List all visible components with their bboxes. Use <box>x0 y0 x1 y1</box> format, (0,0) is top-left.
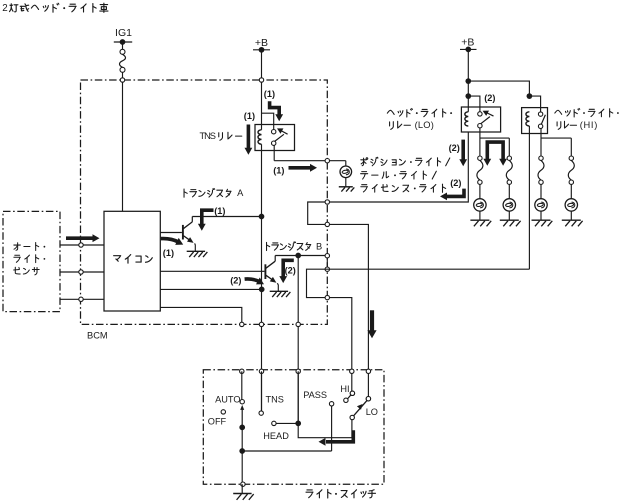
svg-text:PASS: PASS <box>303 390 327 400</box>
svg-text:(2): (2) <box>449 143 460 153</box>
svg-text:(2): (2) <box>450 178 461 188</box>
svg-text:+B: +B <box>461 37 474 49</box>
svg-text:(2): (2) <box>285 265 296 275</box>
svg-text:(2): (2) <box>484 93 495 103</box>
svg-text:(1): (1) <box>163 248 174 258</box>
svg-text:IG1: IG1 <box>115 27 132 39</box>
svg-text:+B: +B <box>255 37 268 49</box>
svg-text:TNS: TNS <box>266 394 284 404</box>
svg-text:A: A <box>237 188 244 198</box>
svg-text:OFF: OFF <box>208 416 227 426</box>
svg-text:(1): (1) <box>264 89 275 99</box>
svg-text:TNS: TNS <box>200 131 217 141</box>
svg-text:HEAD: HEAD <box>263 431 289 441</box>
svg-text:B: B <box>316 241 322 251</box>
svg-text:HI: HI <box>340 384 349 394</box>
svg-text:2: 2 <box>2 3 7 14</box>
svg-text:LO: LO <box>366 407 378 417</box>
svg-text:(1): (1) <box>273 165 284 175</box>
svg-text:AUTO: AUTO <box>215 394 240 404</box>
svg-text:(HI): (HI) <box>580 120 598 130</box>
svg-text:BCM: BCM <box>87 331 108 341</box>
svg-text:(2): (2) <box>230 276 241 286</box>
svg-text:(1): (1) <box>214 206 225 216</box>
svg-text:(1): (1) <box>244 111 255 121</box>
svg-text:(LO): (LO) <box>415 120 434 130</box>
